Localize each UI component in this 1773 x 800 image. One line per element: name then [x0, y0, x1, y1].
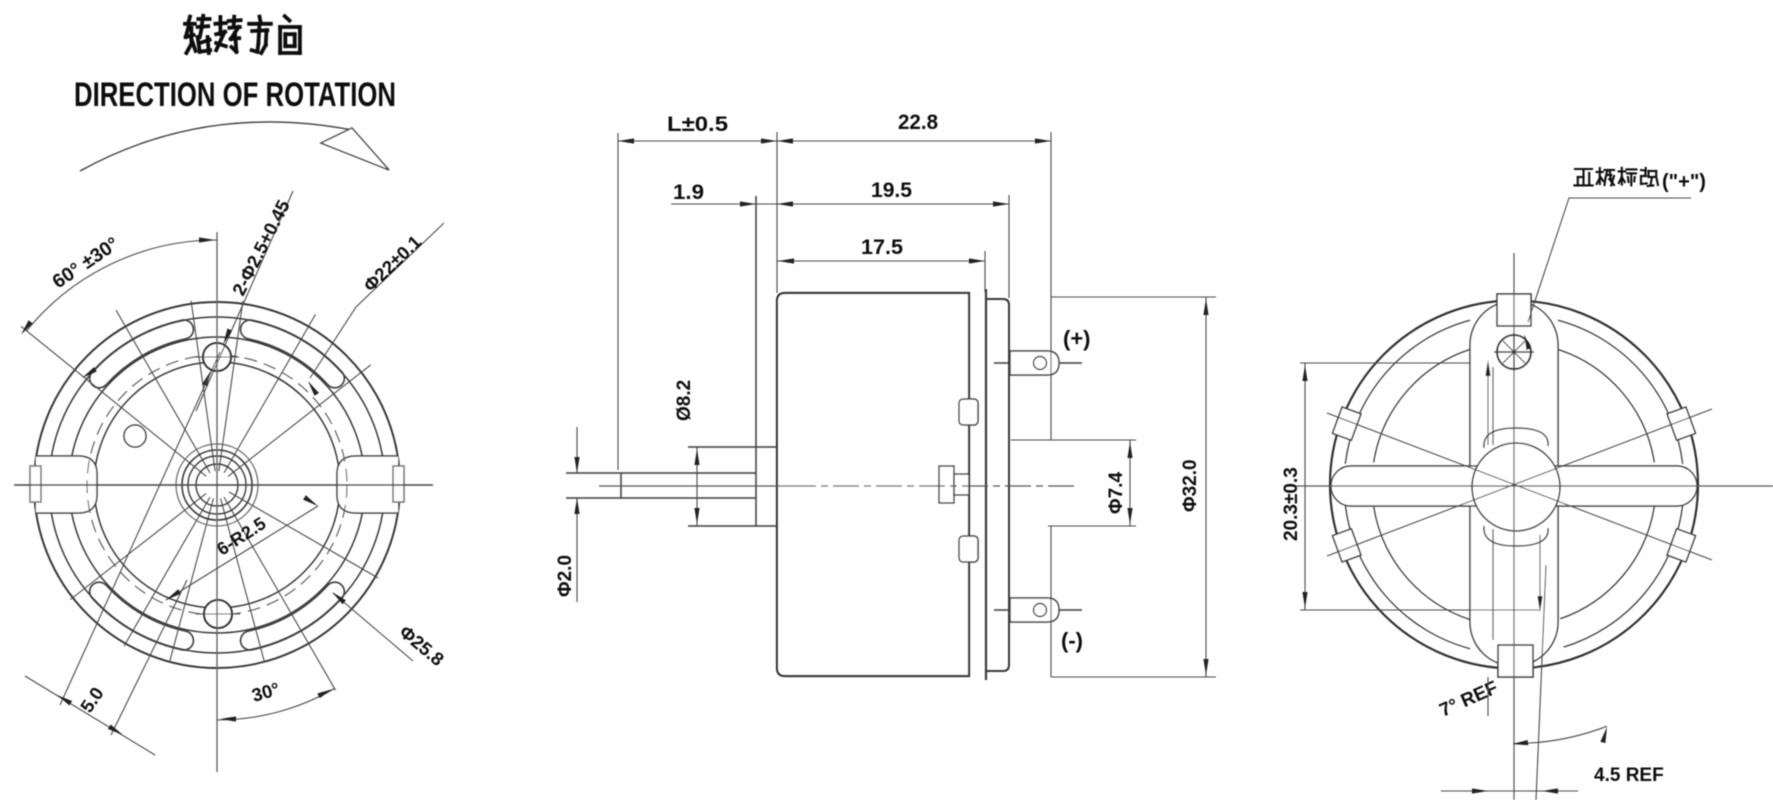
dimension D32.0: [1051, 296, 1216, 298]
horizontal centerline: [14, 484, 433, 486]
bearing retainer arc top: [1484, 428, 1548, 448]
outer circle: [34, 302, 400, 668]
leader arrow to bottom hole: [1539, 535, 1541, 598]
rim inner arcs r170: [1345, 320, 1682, 648]
vertical centerline: [216, 232, 218, 772]
svg-text:20.3±0.3: 20.3±0.3: [1281, 467, 1302, 541]
end cap: [986, 299, 1009, 671]
angular dimension 60deg +-30: [27, 240, 217, 331]
face ring circle r168: [49, 317, 385, 653]
7 deg arc: [1514, 726, 1607, 743]
pin hole: [124, 425, 146, 447]
svg-text:Φ2.0: Φ2.0: [555, 555, 576, 597]
bearing retainer arc bottom: [1484, 526, 1548, 546]
center axis line: [599, 485, 790, 487]
center boss circles: [176, 444, 258, 526]
top mounting hole: [203, 343, 231, 371]
can rear inner line: [968, 293, 970, 676]
dimension 1.9 and 19.5: [671, 203, 1009, 205]
dimension D2.0: [576, 427, 578, 473]
dimension 22.8: [1050, 132, 1052, 440]
leader to positive marker text: [1528, 198, 1691, 322]
svg-text:("+"): ("+"): [1662, 171, 1706, 193]
left view: motor front face: [34, 302, 400, 668]
rear shaft washer: [939, 466, 954, 503]
right side notch window: [337, 456, 398, 513]
bottom band tab: [1498, 645, 1533, 677]
shaft tip edge: [620, 473, 622, 498]
terminal lug positive: [1010, 351, 1059, 375]
vertical slot band: [1470, 301, 1558, 666]
rear shaft stub: [954, 474, 969, 495]
offset dimension 5.0: [60, 352, 220, 705]
front bearing boss: [755, 196, 757, 526]
dimension D7.4: [1011, 439, 1136, 441]
leader arrow to top hole: [1487, 372, 1489, 445]
dimension 20.3+-0.3: [1300, 362, 1470, 364]
svg-text:(-): (-): [1061, 628, 1083, 653]
positive terminal screw: [1497, 335, 1531, 369]
radial spoke lines: [21, 301, 378, 690]
svg-text:19.5: 19.5: [871, 179, 912, 202]
upper-left slot: [90, 320, 194, 388]
fillet callout 6-R2.5: [166, 506, 318, 600]
brush plate line: [985, 289, 987, 680]
svg-text:DIRECTION OF ROTATION: DIRECTION OF ROTATION: [74, 76, 396, 114]
ring circle r148: [69, 337, 365, 633]
diameter callout D25.8: [333, 593, 413, 661]
7 deg reference line: [1536, 565, 1546, 800]
left notch tab: [30, 466, 41, 502]
dimension D8.2: [696, 447, 698, 526]
svg-text:1.9: 1.9: [673, 181, 704, 204]
hole callout 2-D2.5+0.45 leader: [196, 191, 293, 411]
diagonal centerlines: [1327, 413, 1712, 560]
svg-text:4.5 REF: 4.5 REF: [1594, 765, 1664, 786]
ring circle r123: [94, 362, 340, 608]
motor can body: [777, 293, 969, 676]
upper-right slot: [241, 320, 345, 388]
window inner arcs r142: [1374, 349, 1655, 619]
rotation direction arc: [80, 122, 352, 171]
rim crimp tabs: [1333, 407, 1361, 440]
central bearing circle: [1472, 443, 1560, 531]
svg-text:Φ7.4: Φ7.4: [1106, 472, 1127, 514]
dimension 4.5 REF: [1487, 677, 1489, 716]
extra leader arrow on 141deg line: [82, 367, 97, 378]
horizontal centerline: [1286, 485, 1773, 487]
dimension 17.5: [777, 260, 985, 262]
svg-text:Ø8.2: Ø8.2: [674, 380, 695, 421]
crimp tab lower: [959, 536, 978, 562]
crimp tab upper: [959, 399, 978, 425]
left side notch window: [36, 456, 97, 513]
bottom mounting hole: [204, 600, 232, 628]
terminal lug negative: [1010, 598, 1059, 622]
svg-text:L±0.5: L±0.5: [667, 113, 728, 136]
horizontal slot band: [1331, 466, 1697, 506]
svg-text:17.5: 17.5: [861, 236, 903, 259]
shaft: [566, 472, 756, 474]
lower-right slot: [241, 582, 345, 650]
lower-left slot: [90, 582, 194, 650]
angular dimension 30deg: [217, 689, 335, 721]
svg-text:Φ32.0: Φ32.0: [1180, 459, 1201, 512]
svg-text:(+): (+): [1063, 326, 1091, 351]
vertical centerline: [1513, 253, 1515, 800]
right notch tab: [393, 466, 404, 502]
outer circle: [1330, 301, 1698, 669]
inner slot edge lines near center: [1492, 367, 1494, 445]
dimension L+-0.5: [617, 133, 619, 470]
bolt circle (dashed, D22): [87, 355, 347, 615]
top band tab: [1497, 294, 1531, 326]
bolt circle dimension D22+-0.1: [310, 223, 444, 378]
title chinese: fake strokes for CJK glyphs (rotation direction): [185, 16, 300, 53]
svg-text:22.8: 22.8: [898, 111, 938, 134]
